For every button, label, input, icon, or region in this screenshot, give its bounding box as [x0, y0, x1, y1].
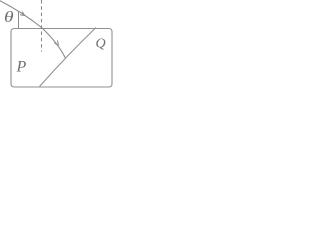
svg-text:Q: Q [96, 37, 106, 52]
svg-text:θ: θ [4, 8, 14, 26]
svg-text:P: P [16, 59, 27, 76]
